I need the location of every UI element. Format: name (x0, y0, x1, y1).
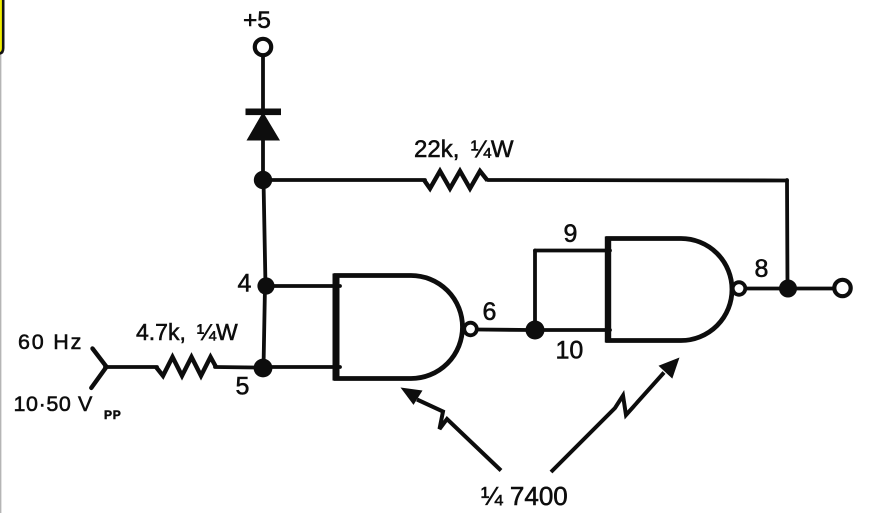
svg-text:5: 5 (236, 373, 250, 401)
wire pin 5 into gate1 (263, 365, 340, 369)
arrow to gate U1B (551, 373, 664, 473)
wire diode to node A (261, 138, 265, 180)
NAND gate U1B body (608, 239, 732, 341)
resistor 22k zigzag (424, 171, 488, 189)
wire 4.7k resistor to node 5 (215, 365, 258, 369)
wire pin 4 into gate1 (266, 284, 340, 288)
svg-text:+5: +5 (243, 7, 271, 34)
wire gate2 output bubble to node 8 (746, 287, 783, 291)
svg-text:60 Hz: 60 Hz (18, 330, 83, 354)
node 8 junction dot (779, 280, 797, 298)
node 6 junction dot (526, 321, 545, 340)
diode D1 triangle (247, 112, 281, 141)
wire node 6 up for pin 9 (533, 251, 537, 331)
wire pin 9 into gate2 (535, 249, 610, 253)
svg-text:6: 6 (483, 298, 497, 326)
output terminal circle (834, 280, 850, 296)
page edge line (0, 0, 2, 513)
NAND gate U1B output bubble (733, 282, 746, 295)
svg-text:10: 10 (556, 337, 584, 365)
wire 22k resistor to right bend (488, 178, 787, 182)
arrowhead to gate U1A (401, 388, 423, 405)
wire node 8 to output terminal (788, 287, 833, 291)
NAND gate U1B thick left edge (605, 237, 611, 343)
resistor 4.7k zigzag (156, 357, 216, 376)
NAND gate U1A output bubble (464, 323, 477, 336)
svg-text:¼ 7400: ¼ 7400 (481, 481, 568, 511)
wire gate1 output bubble to node 6 (477, 328, 530, 332)
wire fork to 4.7k resistor (105, 365, 157, 369)
svg-text:PP: PP (104, 408, 122, 422)
wire input fork upper arm (93, 349, 107, 367)
+5 terminal circle (255, 39, 271, 55)
svg-text:22k, ¼W: 22k, ¼W (414, 136, 514, 163)
NAND gate U1A thick left edge (333, 274, 340, 381)
diode D1 cathode bar (246, 109, 282, 116)
NAND gate U1A body (336, 276, 463, 379)
svg-text:4.7k, ¼W: 4.7k, ¼W (136, 319, 238, 345)
wire node A to 22k resistor (263, 178, 425, 182)
wire node 6 to pin 10 of gate2 (535, 328, 610, 332)
svg-text:8: 8 (755, 255, 769, 283)
svg-text:9: 9 (564, 220, 578, 248)
svg-text:4: 4 (238, 270, 252, 298)
yellow marker tab top-left (0, 0, 3, 54)
svg-text:10·50 V: 10·50 V (14, 392, 94, 416)
node 5 junction dot (254, 359, 273, 378)
wire right bend down to node 8 (785, 180, 789, 288)
wire input fork lower arm (91, 367, 106, 388)
node A junction dot (254, 171, 272, 189)
wire +5 terminal to diode (261, 56, 265, 110)
wire node A down to node 4 and node 5 (264, 180, 266, 286)
arrow to gate U1A (417, 400, 501, 471)
arrowhead to gate U1B (659, 358, 680, 379)
node 4 junction dot (257, 277, 274, 294)
